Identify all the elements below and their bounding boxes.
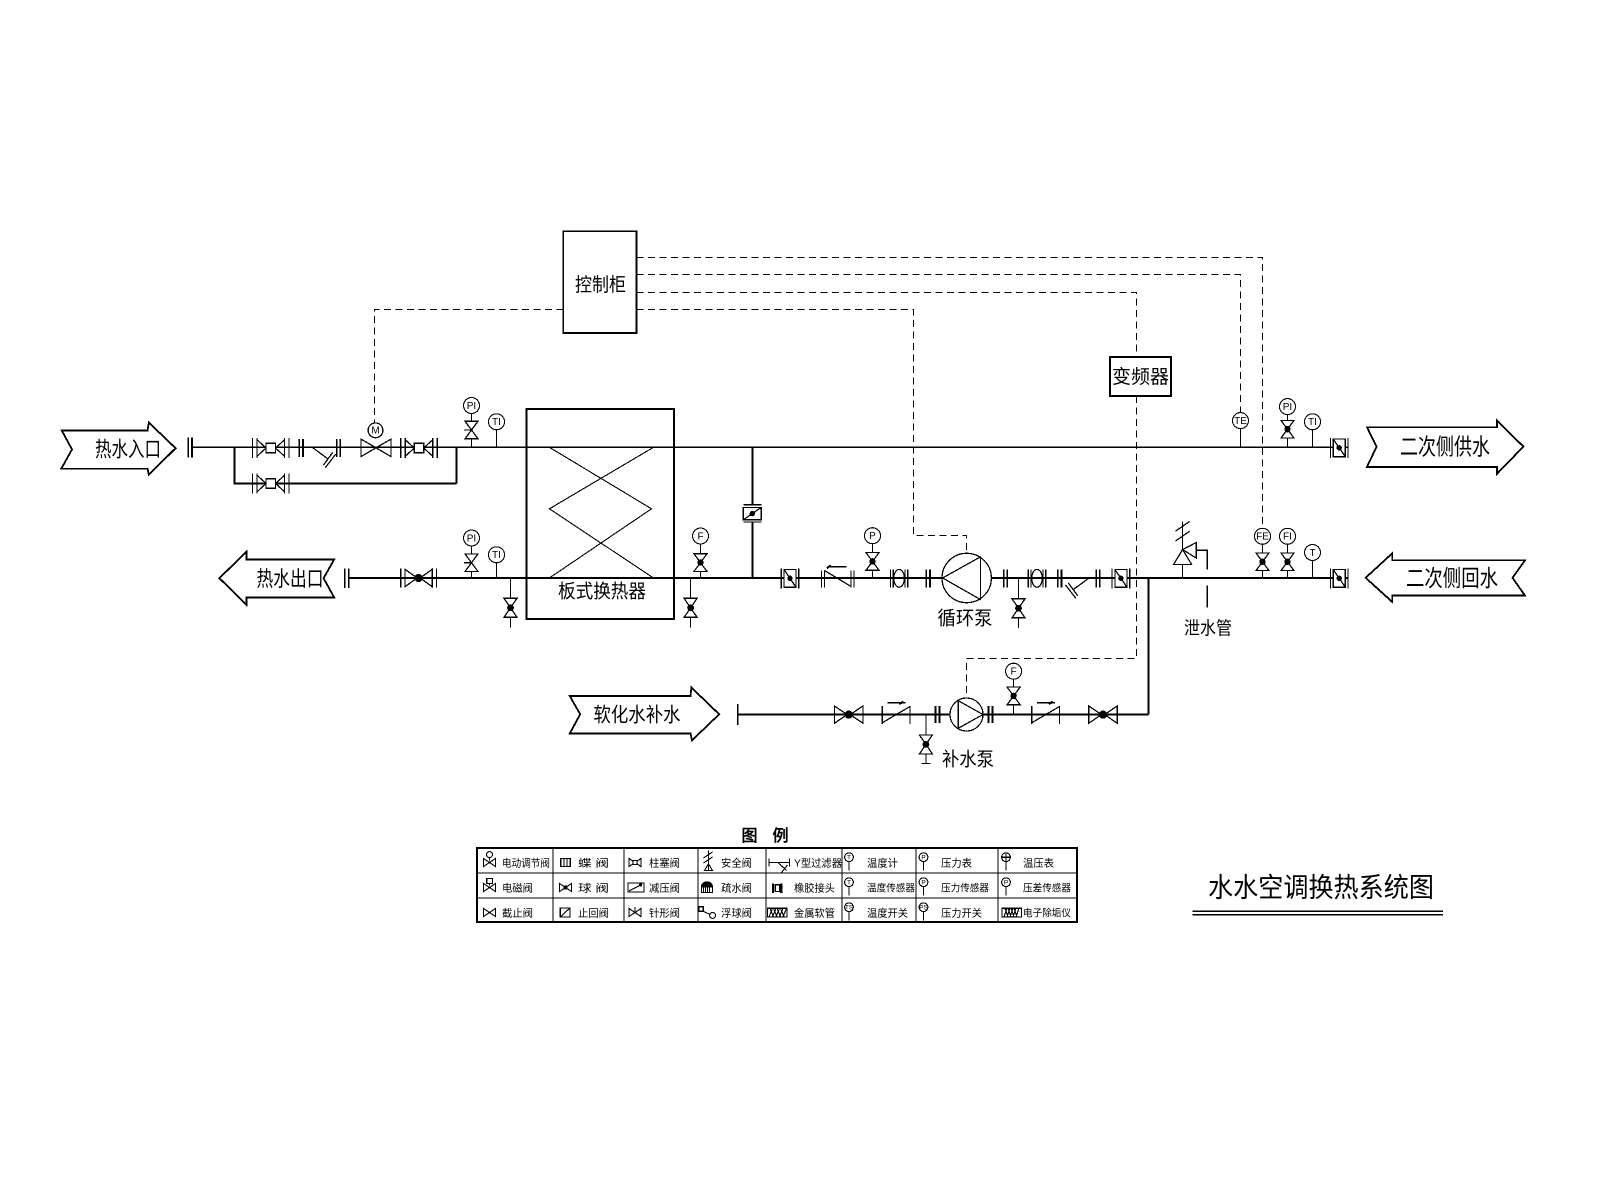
legend: rubber joint 橡胶接头: [773, 881, 835, 894]
Y-strainer on return pipe: [1066, 579, 1089, 599]
svg-text:例: 例: [772, 826, 788, 845]
gauge TI on supply pipe right: [1305, 414, 1321, 448]
legend: diff pressure sensor 压差传感器: [1002, 878, 1071, 896]
flange pair left of pump: [926, 569, 930, 587]
check valve on make-up pipe (left): [882, 702, 910, 724]
svg-text:T: T: [1309, 548, 1315, 559]
legend: butterfly valve 蝶阀: [561, 856, 609, 869]
circulation pump 循环泵: [938, 553, 993, 629]
svg-text:PI: PI: [1283, 402, 1292, 413]
drain valve under heat exchanger left: [510, 578, 512, 628]
legend: safety valve 安全阀: [704, 851, 753, 871]
gauge PI on supply pipe right: [1280, 399, 1296, 448]
pipe end tick (make-up): [737, 704, 739, 725]
drain pipe stub 泄水管: [1184, 586, 1232, 639]
legend: steam trap 疏水阀: [702, 881, 753, 894]
legend: temperature sensor 温度传感器: [845, 878, 915, 896]
plate heat exchanger 板式换热器: [527, 409, 675, 619]
legend: pressure reducing valve 减压阀: [628, 881, 680, 894]
svg-text:柱塞阀: 柱塞阀: [649, 856, 680, 869]
gauge P on return pipe: [865, 528, 881, 578]
legend title 图例: [741, 826, 788, 845]
svg-text:补水泵: 补水泵: [942, 749, 994, 771]
svg-text:热水出口: 热水出口: [257, 568, 324, 591]
svg-text:减压阀: 减压阀: [649, 881, 680, 894]
svg-text:安全阀: 安全阀: [721, 856, 752, 869]
VFD box 变频器: [1110, 357, 1171, 396]
svg-text:金属软管: 金属软管: [794, 906, 835, 919]
control wire: cabinet to TE: [637, 275, 1241, 413]
wire: hot water supply pipe: [192, 446, 1348, 448]
square diag fitting on return pipe (x 790): [781, 568, 799, 588]
check valve on make-up pipe (right): [1032, 702, 1060, 724]
legend: Y strainer Y型过滤器: [769, 856, 842, 872]
gauge F on make-up pipe: [1006, 663, 1022, 714]
svg-text:电磁阀: 电磁阀: [502, 881, 533, 894]
legend: ball valve 球阀: [559, 881, 609, 894]
legend: float valve 浮球阀: [699, 906, 752, 919]
valve: plunger valve on bypass: [253, 474, 289, 494]
arrow: hot water outlet 热水出口: [219, 552, 334, 605]
svg-text:T: T: [847, 880, 851, 887]
svg-text:PI: PI: [467, 533, 476, 544]
legend: plunger valve 柱塞阀: [629, 856, 680, 869]
svg-text:P: P: [1004, 880, 1008, 887]
legend: electric control valve 电动调节阀: [483, 852, 550, 870]
svg-text:TS: TS: [845, 905, 854, 912]
valve under make-up F: [1007, 687, 1020, 705]
svg-text:温度开关: 温度开关: [867, 906, 908, 919]
svg-text:PS: PS: [919, 905, 928, 912]
legend: check valve 止回阀: [560, 906, 609, 919]
svg-text:电动调节阀: 电动调节阀: [502, 856, 550, 869]
svg-text:TI: TI: [492, 417, 501, 428]
drain valve right of pump: [1018, 578, 1020, 628]
wire: branch between supply and return at x=752: [752, 447, 754, 578]
svg-text:压力开关: 压力开关: [941, 906, 982, 919]
svg-text:M: M: [371, 426, 379, 437]
valve under right PI: [1281, 420, 1294, 438]
legend: solenoid valve 电磁阀: [483, 878, 533, 894]
legend table grid: [477, 848, 1077, 922]
arrow: softened make-up water 软化水补水: [570, 688, 719, 741]
svg-text:控制柜: 控制柜: [575, 274, 626, 296]
svg-text:P: P: [921, 880, 925, 887]
svg-text:TI: TI: [1308, 417, 1317, 428]
legend: temp-pressure gauge 温压表: [1002, 853, 1055, 871]
gauge TI on outlet pipe: [489, 547, 505, 578]
svg-text:针形阀: 针形阀: [649, 906, 680, 919]
svg-text:压力表: 压力表: [941, 856, 972, 869]
control wire: cabinet to motor valve: [375, 310, 564, 423]
wire: hot water return / secondary return pipe: [349, 577, 1348, 579]
svg-text:球 阀: 球 阀: [578, 881, 609, 894]
legend: metal hose 金属软管: [768, 906, 836, 919]
svg-text:P: P: [921, 855, 925, 862]
svg-text:FI: FI: [1283, 532, 1292, 543]
flange pair right of pump: [1004, 569, 1008, 587]
pressure reducing device on branch: [743, 505, 761, 522]
control wire: cabinet to circulation pump: [637, 310, 967, 554]
drain valve under heat exchanger right: [690, 578, 692, 628]
square diag fitting at end of return pipe: [1330, 568, 1348, 588]
svg-text:温压表: 温压表: [1023, 856, 1054, 869]
ball valve on hot water outlet pipe: [401, 569, 437, 588]
valve under outlet PI: [465, 554, 478, 572]
rubber joint left of pump: [890, 569, 907, 587]
pipe end tick (hot water outlet): [345, 569, 349, 589]
valve under PI: [465, 421, 478, 439]
valve: plunger valve right of M: [401, 438, 437, 458]
svg-text:温度计: 温度计: [867, 856, 898, 869]
svg-text:PI: PI: [467, 401, 476, 412]
arrow: secondary return 二次侧回水: [1366, 553, 1525, 602]
gauge PI on inlet pipe: [464, 398, 480, 448]
wire: make-up pipe: [738, 714, 1149, 716]
svg-text:二次侧供水: 二次侧供水: [1400, 434, 1490, 460]
legend: thermometer 温度计: [845, 853, 899, 871]
valve under FI: [1281, 553, 1294, 571]
valve under FE: [1256, 553, 1269, 571]
gauge PI on outlet pipe: [464, 530, 480, 578]
valve: plunger valve on inlet pipe: [253, 438, 289, 458]
gauge FI on return pipe: [1280, 528, 1296, 578]
legend: pressure switch 压力开关: [919, 903, 982, 921]
svg-text:压差传感器: 压差传感器: [1023, 881, 1071, 894]
safety valve on return pipe: [1174, 521, 1208, 578]
legend: pressure sensor 压力传感器: [919, 878, 989, 896]
drain valve before make-up pump: [921, 715, 930, 764]
main title 水水空调换热系统图: [1193, 873, 1443, 915]
valve under gauge P: [866, 553, 879, 571]
svg-text:板式换热器: 板式换热器: [558, 581, 646, 603]
svg-text:二次侧回水: 二次侧回水: [1406, 565, 1498, 591]
svg-text:截止阀: 截止阀: [502, 906, 533, 919]
wire: make-up connection riser: [1148, 578, 1150, 715]
flange pair: [1058, 569, 1062, 587]
svg-text:水水空调换热系统图: 水水空调换热系统图: [1208, 873, 1434, 903]
svg-text:压力传感器: 压力传感器: [941, 881, 989, 894]
svg-text:图: 图: [741, 827, 757, 845]
legend: stop valve 截止阀: [483, 906, 533, 919]
flange pair: [299, 439, 303, 457]
ball valve on make-up pipe (left): [835, 706, 863, 724]
legend: electronic descaler 电子除垢仪: [1002, 906, 1071, 919]
pipe end tick (hot water inlet): [188, 437, 192, 457]
legend: pressure gauge 压力表: [919, 853, 972, 871]
legend: needle valve 针形阀: [629, 906, 680, 919]
svg-text:P: P: [869, 531, 876, 542]
svg-text:FE: FE: [1256, 532, 1269, 543]
svg-text:F: F: [1011, 667, 1017, 678]
flange pair right of make-up pump: [989, 706, 993, 723]
make-up pump 补水泵: [942, 698, 994, 771]
control cabinet 控制柜: [563, 231, 636, 333]
control wire: cabinet to VFD: [637, 293, 1137, 358]
svg-text:F: F: [697, 531, 703, 542]
square diag fitting at end of supply pipe: [1330, 438, 1348, 458]
ball valve on make-up pipe (right): [1089, 706, 1117, 724]
svg-text:变频器: 变频器: [1112, 366, 1169, 388]
arrow: secondary supply 二次侧供水: [1367, 421, 1523, 474]
svg-text:温度传感器: 温度传感器: [867, 881, 915, 894]
Y-strainer on inlet pipe: [313, 448, 336, 468]
arrow: hot water inlet 热水入口: [61, 423, 175, 475]
wire: bypass loop: [235, 447, 457, 483]
gauge TE on supply pipe: [1233, 413, 1249, 448]
flange pair: [337, 439, 341, 457]
svg-text:热水入口: 热水入口: [95, 439, 161, 462]
flange pair: [1096, 569, 1100, 587]
flange pair left of make-up pump: [936, 706, 940, 723]
gauge F right of heat exchanger: [693, 528, 709, 578]
svg-text:循环泵: 循环泵: [938, 608, 993, 630]
legend: temperature switch 温度开关: [845, 903, 909, 921]
gauge TI on inlet pipe: [489, 414, 505, 448]
svg-text:软化水补水: 软化水补水: [594, 704, 681, 727]
svg-text:橡胶接头: 橡胶接头: [794, 881, 835, 894]
svg-text:蝶 阀: 蝶 阀: [578, 856, 609, 869]
gauge T on return pipe: [1305, 545, 1321, 579]
svg-text:疏水阀: 疏水阀: [721, 881, 752, 894]
svg-text:TI: TI: [492, 550, 501, 561]
valve under gauge F: [694, 554, 707, 572]
motor valve M (electric control valve): [361, 423, 391, 457]
control wire: cabinet to FE: [637, 258, 1263, 529]
svg-text:止回阀: 止回阀: [578, 906, 609, 919]
svg-text:泄水管: 泄水管: [1184, 619, 1232, 639]
svg-text:T: T: [847, 855, 851, 862]
rubber joint right of pump: [1028, 569, 1045, 587]
svg-text:电子除垢仪: 电子除垢仪: [1023, 906, 1071, 919]
svg-text:TE: TE: [1234, 416, 1247, 427]
control wire: VFD to make-up pump: [967, 396, 1137, 698]
check valve on return pipe: [822, 565, 855, 587]
svg-text:Y型过滤器: Y型过滤器: [794, 856, 842, 869]
gauge FE on return pipe: [1255, 528, 1271, 578]
square diag fitting on return pipe (x 1121): [1112, 568, 1130, 588]
svg-text:浮球阀: 浮球阀: [721, 906, 752, 919]
